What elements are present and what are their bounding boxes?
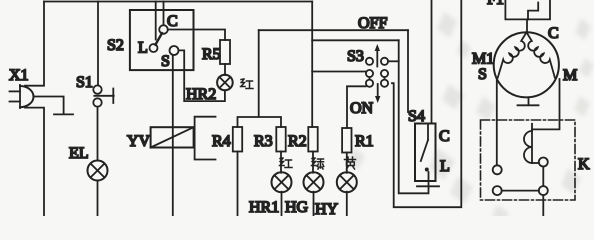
svg-text:M1: M1 <box>472 51 494 68</box>
wire OFF right edge <box>407 30 409 112</box>
switch S4 blade <box>421 124 429 182</box>
resistor R4 column <box>233 127 242 152</box>
ground (plug earth) <box>34 97 73 115</box>
S3 down arrow <box>375 84 380 103</box>
node red label (HR2) <box>241 79 254 89</box>
svg-text:S2: S2 <box>107 37 124 54</box>
S4 bottom bar <box>417 181 439 186</box>
lamp HR2 <box>217 75 233 91</box>
fuse F1 <box>505 0 550 32</box>
scanner watermark artifacts <box>348 12 594 224</box>
wire C rail 2 <box>259 29 408 31</box>
svg-text:M: M <box>563 67 577 84</box>
node yellow label (HY) <box>345 157 356 169</box>
relay K coil <box>524 124 539 163</box>
wire S3 mid-left <box>312 71 366 73</box>
motor M1 <box>494 32 559 97</box>
svg-text:F1: F1 <box>487 0 504 8</box>
svg-text:YV: YV <box>127 133 151 150</box>
wire S4 feed <box>431 0 433 124</box>
svg-text:R5: R5 <box>202 46 221 63</box>
lamp EL <box>88 161 108 217</box>
wire S column through YV <box>172 55 174 216</box>
wire X1 riser <box>25 2 44 86</box>
switch S2 contacts <box>150 25 179 55</box>
node red label (HR1) <box>280 158 293 168</box>
wire ON out to right riser <box>392 0 461 207</box>
motor frame ground <box>518 97 539 105</box>
resistor R3 <box>276 127 285 152</box>
wire motor M down <box>532 79 560 129</box>
svg-text:X1: X1 <box>9 67 29 84</box>
YV armature bracket <box>195 117 216 160</box>
wire X1 bottom <box>25 108 44 216</box>
lamp HR1 <box>272 172 292 216</box>
switch S4 box <box>415 124 436 182</box>
svg-text:R1: R1 <box>355 133 374 150</box>
lamp HY <box>337 153 357 217</box>
svg-text:C: C <box>548 25 559 42</box>
wire riser to R4 R3 <box>238 30 282 127</box>
wire ON to R1 <box>347 86 366 128</box>
switch S2 box <box>130 10 194 70</box>
svg-text:OFF: OFF <box>358 15 387 32</box>
S3 up arrow <box>375 44 380 67</box>
svg-text:L: L <box>138 40 148 57</box>
resistor R5 <box>220 40 230 64</box>
solenoid YV <box>151 127 194 147</box>
lamp HG <box>304 172 324 216</box>
wire S2 risers <box>155 2 157 40</box>
wire to S3 upper contact <box>312 39 399 41</box>
svg-text:R3: R3 <box>254 133 273 150</box>
wire R2 to HG <box>312 152 314 173</box>
svg-text:S: S <box>478 66 487 83</box>
svg-text:HG: HG <box>285 199 309 216</box>
plug X1 <box>10 85 34 108</box>
svg-text:ON: ON <box>350 100 374 117</box>
wire R5 to HR2 <box>224 64 226 75</box>
resistor R1 <box>342 128 351 153</box>
svg-text:L: L <box>440 158 450 175</box>
svg-text:EL: EL <box>69 145 89 162</box>
wire top rail <box>44 1 312 3</box>
svg-text:R4: R4 <box>212 133 231 150</box>
relay K dashed box <box>481 120 576 200</box>
relay K contacts <box>493 158 548 217</box>
wire R2 column <box>311 2 313 128</box>
wire motor S down <box>496 79 498 166</box>
svg-text:C: C <box>167 13 178 30</box>
svg-text:S3: S3 <box>347 48 364 65</box>
svg-text:S4: S4 <box>408 108 425 125</box>
resistor R2 <box>308 127 317 152</box>
switch S1 <box>93 2 113 161</box>
svg-text:HR1: HR1 <box>249 199 279 216</box>
svg-text:S: S <box>161 53 170 70</box>
switch S3 contacts <box>366 58 399 87</box>
wire S to HR2 bottom <box>179 50 225 101</box>
svg-text:HY: HY <box>315 201 339 216</box>
wire S3 to S4 common <box>399 40 429 193</box>
svg-text:S1: S1 <box>76 74 93 91</box>
svg-text:K: K <box>578 156 590 173</box>
wire C to R5 <box>168 30 225 41</box>
svg-text:R2: R2 <box>288 133 307 150</box>
wire R4 down <box>237 152 239 217</box>
node green label (HG) <box>312 158 324 169</box>
motor windings <box>498 32 555 77</box>
svg-text:C: C <box>439 128 450 145</box>
wire R3 to HR1 <box>280 152 282 173</box>
